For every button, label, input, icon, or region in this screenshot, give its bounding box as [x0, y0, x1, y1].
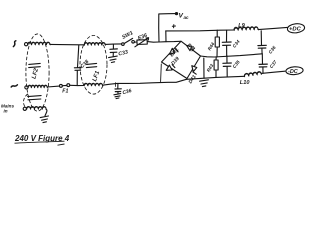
- svg-text:C36: C36: [268, 45, 277, 55]
- svg-text:C36: C36: [122, 88, 133, 96]
- svg-text:L9: L9: [238, 23, 245, 29]
- svg-text:in: in: [4, 109, 8, 114]
- svg-text:-DC: -DC: [288, 69, 299, 75]
- svg-text:ac: ac: [184, 15, 190, 20]
- svg-text:+DC: +DC: [289, 27, 302, 33]
- svg-text:E36: E36: [137, 33, 148, 42]
- svg-text:R43: R43: [206, 63, 215, 73]
- svg-text:F1: F1: [62, 89, 68, 95]
- svg-text:LF1: LF1: [92, 70, 101, 83]
- svg-text:C34: C34: [232, 39, 241, 49]
- svg-text:C37: C37: [269, 59, 278, 69]
- svg-text:R44: R44: [207, 41, 216, 51]
- svg-text:C33: C33: [118, 49, 129, 57]
- svg-text:L10: L10: [240, 80, 251, 86]
- svg-text:LF2: LF2: [31, 67, 40, 79]
- svg-text:C35: C35: [232, 59, 241, 69]
- svg-text:C38: C38: [79, 59, 90, 70]
